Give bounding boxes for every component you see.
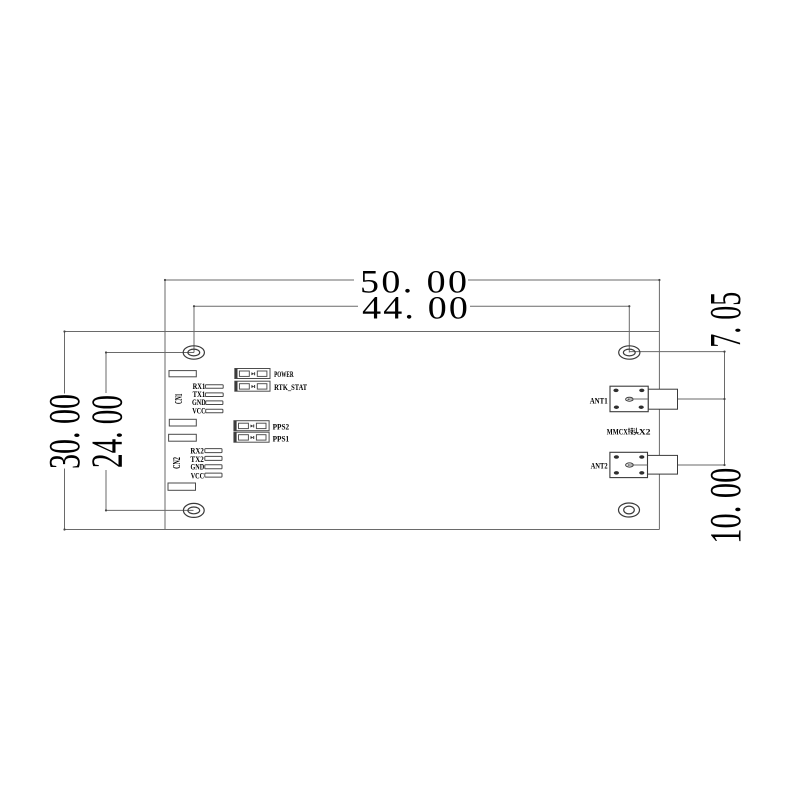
svg-text:PPS2: PPS2 <box>273 422 290 431</box>
extension line from hole H2 center <box>629 351 724 353</box>
silk rectangle pad 3 on left edge <box>169 434 197 441</box>
CN2 pin GND pad <box>205 465 222 469</box>
svg-text:GND: GND <box>191 463 205 472</box>
MMCX connector ANT1 tab <box>648 389 677 409</box>
svg-text:ANT1: ANT1 <box>590 396 608 405</box>
board outline bottom edge with extension to 30.00 dim <box>65 529 660 531</box>
extension line from ANT1 center <box>630 398 725 400</box>
LED D1 POWER body <box>235 369 270 379</box>
dimension 24.00 line upper segment <box>105 353 107 394</box>
CN1 pin VCC pad <box>206 409 223 413</box>
CN2 pin VCC pad <box>205 473 222 477</box>
right dimension end ticks <box>723 351 725 353</box>
LED D3 PPS2 body <box>234 421 269 431</box>
svg-text:RTK_STAT: RTK_STAT <box>274 383 308 392</box>
CN2 pin RX2 pad <box>205 449 222 453</box>
svg-text:POWER: POWER <box>274 370 294 379</box>
dimension 24.00 extension line to hole H3 <box>106 509 194 511</box>
CN1 pin RX1 pad <box>205 385 223 389</box>
dimension 44.00 extension line right down to hole H2 <box>628 306 630 352</box>
CN2 pin TX2 pad <box>205 456 222 460</box>
right dimension vertical line (7.05 and 10.00) <box>724 352 726 465</box>
dimension 44.00 line left segment <box>194 305 358 307</box>
LED D2 RTK_STAT body <box>235 381 270 391</box>
board outline right edge with extension up to 50.00 dim <box>658 280 660 530</box>
dimension 30.00 line upper segment <box>64 332 66 394</box>
hanzi TOU (头) glyph strokes <box>634 428 639 435</box>
CN1 pin GND pad <box>206 401 223 405</box>
MMCX connector ANT1 body <box>610 386 648 412</box>
dimension 44.00 extension line left down to hole H1 <box>193 306 195 352</box>
svg-text:PPS1: PPS1 <box>273 434 290 443</box>
LED D4 PPS1 body <box>234 432 269 442</box>
dimension 24.00 end ticks <box>105 351 107 353</box>
svg-text:VCC: VCC <box>191 471 205 480</box>
silk rectangle pad 1 on left edge <box>169 371 196 377</box>
svg-text:X2: X2 <box>639 427 651 436</box>
svg-text:MMCX: MMCX <box>607 427 628 436</box>
dimension 30.00 end ticks <box>63 330 65 332</box>
svg-text:VCC: VCC <box>192 406 206 415</box>
svg-text:CN1: CN1 <box>174 394 185 405</box>
dimension 44.00 end ticks <box>193 305 195 307</box>
dimension 24.00 line lower segment <box>105 470 107 510</box>
mounting hole H4 bottom-right <box>619 503 640 517</box>
dimension 50.00 line left segment <box>165 279 354 281</box>
CN1 pin TX1 pad <box>205 393 223 397</box>
board outline left edge with extension up to 50.00 dim <box>164 280 166 530</box>
MMCX X2 annotation text <box>607 427 651 436</box>
dimension 30.00 line lower segment <box>64 469 66 530</box>
dimension 50.00 end ticks <box>164 279 166 281</box>
mounting hole H2 top-right <box>619 346 640 359</box>
mounting hole H3 bottom-left <box>183 503 204 517</box>
dimension 24.00 extension line to hole H1 <box>106 352 194 354</box>
dimension 44.00 line right segment <box>470 305 629 307</box>
silk rectangle pad 4 on left edge <box>168 483 196 490</box>
svg-text:24. 00: 24. 00 <box>83 395 132 468</box>
dimension 50.00 line right segment <box>468 279 659 281</box>
extension line from ANT2 center <box>629 464 725 466</box>
silk rectangle pad 2 on left edge <box>169 419 196 426</box>
svg-text:ANT2: ANT2 <box>591 461 608 470</box>
svg-text:7. 05: 7. 05 <box>701 292 750 348</box>
svg-text:10. 00: 10. 00 <box>701 468 750 544</box>
hanzi JIE (接) glyph strokes <box>628 428 633 435</box>
board outline top edge with extension to 30.00 dim <box>65 331 660 333</box>
svg-text:CN2: CN2 <box>172 457 183 469</box>
MMCX connector ANT2 body <box>610 452 648 477</box>
mounting hole H1 top-left <box>183 346 204 359</box>
MMCX connector ANT2 tab <box>648 455 678 474</box>
